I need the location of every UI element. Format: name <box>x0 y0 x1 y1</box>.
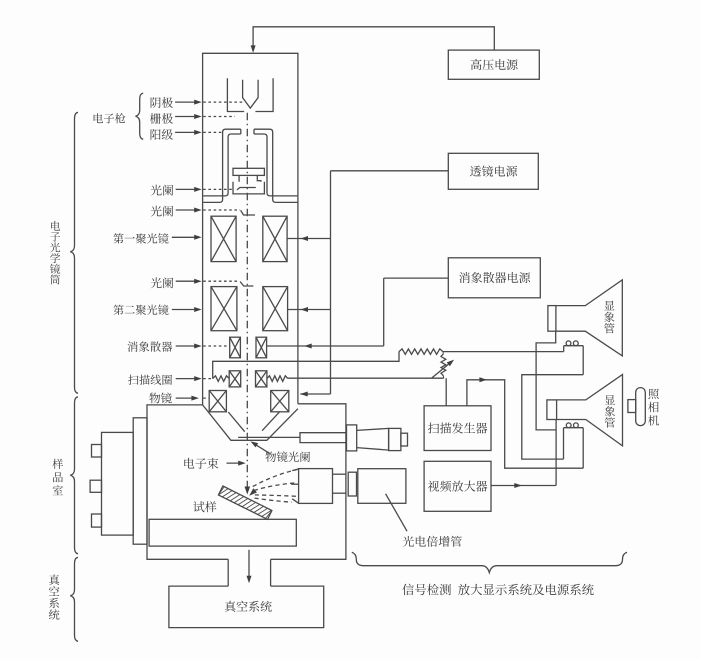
wire: high-voltage supply to electron gun (top) <box>253 27 494 51</box>
anode left bracket <box>203 129 241 202</box>
scan coil right (X box) <box>256 371 267 387</box>
first condenser lens left coil (X box) <box>211 216 236 261</box>
wire: lens supply vertical bus <box>330 171 332 394</box>
photomultiplier coupler block <box>348 472 356 496</box>
arrow: anode callout <box>175 131 199 133</box>
anode right bracket <box>254 129 297 202</box>
label 样品室 <box>52 459 63 495</box>
aperture drive flange block <box>347 425 357 451</box>
stage knob 3 <box>92 514 102 527</box>
arrow: aperture1 callout <box>176 188 199 190</box>
chamber left stage mechanism box <box>102 432 134 535</box>
scan coil right zigzag winding <box>267 376 288 382</box>
box: lens power supply 透镜电源 <box>448 153 538 189</box>
brace: sample chamber group 样品室 <box>70 397 78 554</box>
brace: signal detection & display systems <box>352 552 627 572</box>
label 阴极 <box>151 97 173 108</box>
label 照相机 <box>648 389 659 426</box>
optical axis (dash-dot beam line) <box>246 113 248 489</box>
label 透镜电源 <box>470 165 517 176</box>
specimen stage block <box>149 519 296 546</box>
scattered-electron arrowhead at specimen <box>249 488 257 495</box>
objective lens left coil (X box) <box>209 391 226 412</box>
brace: electron optical column group 电子光学镜筒 <box>70 112 78 393</box>
gun aperture assembly (光阑 widget) <box>233 168 264 175</box>
label 物镜光阑 <box>266 451 310 462</box>
label 扫描发生器 <box>428 422 487 433</box>
filament (cathode tip) <box>243 80 258 108</box>
stigmator right coil (X box) <box>256 337 267 358</box>
arrow: C2 callout <box>172 309 199 311</box>
aperture drive end cap <box>389 428 401 450</box>
CRT2 deflection yoke coil <box>563 428 565 459</box>
wire: scan generator output + arrow <box>467 380 583 468</box>
wire: wiper to scan generator <box>445 378 447 406</box>
dotted line: objective callout <box>203 397 209 399</box>
arrow: C1 callout <box>172 236 199 238</box>
arrow: objective callout <box>176 397 196 399</box>
arrow: scan coil callout <box>176 378 199 380</box>
specimen 试样 (hatched tilted bar) <box>218 486 271 519</box>
column outer wall (electron optical column) <box>203 53 298 405</box>
objective pole piece cone <box>203 405 298 440</box>
label 视频放大器 <box>428 481 487 492</box>
objective lens right coil (X box) <box>271 391 289 412</box>
label 消象散器 <box>127 341 172 352</box>
second condenser lens left coil (X box) <box>211 287 237 331</box>
CRT2 display tube 显象管 outline <box>547 400 557 420</box>
sample chamber outline <box>147 405 228 559</box>
potentiometer vertical zigzag <box>441 354 446 376</box>
wire: lens supply to C1 + arrow <box>287 238 330 240</box>
collector box (scintillator) <box>299 469 333 504</box>
stigmator left coil (X box) <box>230 337 241 358</box>
dotted line: aperture3 callout + aperture plate <box>203 280 239 282</box>
label 光阑 2 <box>151 206 174 217</box>
first condenser lens right coil (X box) <box>263 216 287 261</box>
objective cone inner right line <box>262 412 280 431</box>
photomultiplier tube box 光电倍增管 <box>358 469 406 504</box>
objective cone inner left line <box>228 412 244 432</box>
potentiometer horizontal zigzag <box>399 349 443 354</box>
wire: scan coil lower lead to potentiometer <box>288 377 444 379</box>
aperture drive taper body <box>357 428 389 450</box>
dotted line: cathode callout <box>203 101 244 103</box>
pump duct walls <box>227 559 229 586</box>
label 高压电源 <box>471 59 518 70</box>
label 真空系统 (brace) <box>49 574 60 619</box>
wire: stigmator supply line + arrow <box>267 345 384 347</box>
label 阳级 <box>151 129 173 140</box>
brace: vacuum group 真空系统 <box>70 557 78 641</box>
wire: video amp output + arrow <box>491 485 556 487</box>
label 信号检测 放大显示系统及电源系统 <box>402 584 594 596</box>
cathode housing (Wehnelt cup) <box>227 78 244 111</box>
aperture drive rod (through wall) <box>300 433 346 443</box>
label 试样 <box>193 501 216 512</box>
dotted line: aperture2 callout + aperture plate <box>203 209 240 211</box>
label 真空系统 (box) <box>225 601 272 612</box>
label 光电倍增管 <box>403 536 462 547</box>
label 电子束 <box>184 458 218 469</box>
wire: scan coil upper lead <box>213 352 399 379</box>
box: video amplifier 视频放大器 <box>424 461 491 511</box>
arrow: aperture2 callout <box>176 209 199 211</box>
objective aperture callout arrow <box>253 443 270 454</box>
label 栅极 <box>150 113 173 124</box>
CRT1 display tube 显象管 outline <box>548 306 556 332</box>
secondary electron dashed ray 3 <box>255 495 297 496</box>
light pipe tube lines <box>333 473 347 475</box>
label 电子枪 <box>94 113 126 123</box>
brace: electron gun electrode group <box>136 93 144 139</box>
arrow: aperture3 callout <box>176 280 199 282</box>
label 第一聚光镜 <box>113 233 168 243</box>
box: high voltage power supply 高压电源 <box>448 50 539 79</box>
secondary electron dashed ray 1 <box>253 470 297 487</box>
wire: video signal to CRT necks <box>555 420 557 486</box>
wire: lens supply to objective + arrow <box>300 393 330 395</box>
second condenser lens right coil (X box) <box>263 287 288 331</box>
dotted line: grid callout <box>203 116 235 118</box>
dotted line: anode callout <box>203 131 222 133</box>
wire: pot top to CRT1 yoke <box>443 351 564 353</box>
label 电子光学镜筒 <box>50 221 60 284</box>
potentiometer wiper arrow <box>432 362 451 378</box>
pump flow arrow <box>248 550 250 580</box>
box: vacuum system 真空系统 <box>169 586 324 628</box>
wire: CRT1 yoke to CRT2 yoke <box>522 375 583 459</box>
objective aperture rod 物镜光阑 <box>238 436 300 438</box>
scan coil left (X box) <box>229 371 241 387</box>
dotted line: scan coil callout <box>203 378 212 380</box>
CRT1 deflection yoke coil <box>563 346 565 352</box>
label 消象散器电源 <box>459 272 530 283</box>
camera 照相机 connector <box>628 400 636 413</box>
label 扫描线圈 <box>128 375 172 385</box>
arrow: cathode callout <box>175 101 199 103</box>
wire: lens supply box to bus <box>331 170 449 172</box>
label 显象管 CRT2 <box>605 395 615 428</box>
secondary electron dashed ray 4 <box>255 498 292 502</box>
collector flare (scintillator grid) <box>292 469 298 471</box>
photomultiplier callout line <box>386 494 407 531</box>
electron beam label arrow <box>227 462 243 464</box>
wire: stigmator supply box link <box>384 277 449 279</box>
stage knob 2 <box>90 480 101 492</box>
wire: lens supply to C2 + arrow <box>288 309 331 311</box>
label 物镜 <box>149 393 171 404</box>
aperture drive knob tab <box>401 433 408 446</box>
label 光阑 3 <box>151 277 174 288</box>
label 第二聚光镜 <box>113 304 168 314</box>
beam arrowhead at specimen <box>245 487 251 495</box>
dotted line: stigmator callout <box>203 345 230 347</box>
chamber left flange plate <box>133 418 147 544</box>
camera 照相机 body <box>636 388 646 426</box>
label 光阑 1 <box>151 185 174 196</box>
stage knob 1 <box>92 445 102 458</box>
wire: stigmator supply vertical <box>383 278 385 346</box>
box: scan generator 扫描发生器 <box>424 406 491 451</box>
secondary electron dashed ray 2 <box>254 483 297 491</box>
scan coil left zigzag winding <box>213 376 230 382</box>
dotted line: aperture1 callout <box>203 188 233 190</box>
box: stigmator power supply 消象散器电源 <box>448 258 540 298</box>
arrow: stigmator callout <box>176 345 199 347</box>
label 显象管 CRT1 <box>604 301 614 334</box>
arrow: grid callout <box>175 116 199 118</box>
